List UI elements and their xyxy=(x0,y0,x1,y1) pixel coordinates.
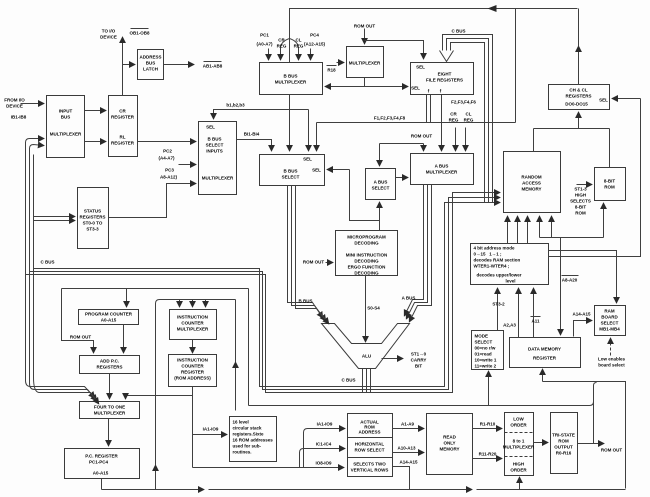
svg-text:11=write 2: 11=write 2 xyxy=(475,364,497,369)
box U3 ADDRESS BUS LATCH xyxy=(138,50,164,80)
svg-text:A BUS: A BUS xyxy=(402,296,416,301)
svg-text:SELECTS: SELECTS xyxy=(570,199,591,204)
svg-text:SEL: SEL xyxy=(411,86,420,91)
svg-text:CL: CL xyxy=(466,112,472,117)
svg-text:REGISTERS: REGISTERS xyxy=(565,94,591,99)
wires into 4bit decoder bottom xyxy=(497,289,499,331)
svg-text:PROGRAM COUNTER: PROGRAM COUNTER xyxy=(85,312,133,317)
svg-text:0→15 1→1 ;: 0→15 1→1 ; xyxy=(474,252,503,257)
svg-text:(A12-A15): (A12-A15) xyxy=(304,42,326,47)
box U5 STATUS REGISTERS xyxy=(78,188,109,249)
svg-text:REGISTERS: REGISTERS xyxy=(96,365,122,370)
wire R18 into multiplexer left xyxy=(337,62,344,64)
svg-text:ORDER: ORDER xyxy=(510,423,527,428)
svg-text:R1-R10: R1-R10 xyxy=(480,422,496,427)
svg-text:A11: A11 xyxy=(531,319,540,324)
svg-text:ST3-3: ST3-3 xyxy=(86,227,99,232)
left bus top arrows into input bus mux xyxy=(26,139,44,143)
svg-text:decodes RAM section: decodes RAM section xyxy=(474,258,521,263)
svg-text:SELECT: SELECT xyxy=(372,186,390,191)
box U18 DATA MEMORY REGISTER xyxy=(510,338,581,368)
svg-text:ROM: ROM xyxy=(575,211,586,216)
C bus horizontal triple left section xyxy=(34,203,500,387)
svg-text:CH & CL: CH & CL xyxy=(569,88,587,93)
svg-text:ROM: ROM xyxy=(558,439,569,444)
svg-text:MEMORY: MEMORY xyxy=(439,447,459,452)
wire input bus mux to CR register xyxy=(85,110,106,112)
box U4 B BUS SELECT INPUTS MULTIPLEXER xyxy=(199,122,237,195)
svg-text:ALU: ALU xyxy=(362,354,371,359)
wires status registers input xyxy=(34,216,75,218)
svg-text:READ: READ xyxy=(443,435,457,440)
svg-text:(A4-A7): (A4-A7) xyxy=(158,156,175,161)
wire BI1-BI4 select inputs to B bus select xyxy=(237,140,272,151)
wire ICR bottom down distribution xyxy=(192,387,194,468)
box U10 A BUS SELECT xyxy=(366,169,396,200)
svg-text:OUTPUT: OUTPUT xyxy=(554,445,573,450)
svg-text:board select: board select xyxy=(598,363,625,368)
svg-text:P.C. REGISTER: P.C. REGISTER xyxy=(85,454,118,459)
svg-text:PC1: PC1 xyxy=(260,33,269,38)
svg-text:C BUS: C BUS xyxy=(40,260,54,265)
svg-text:ROM OUT: ROM OUT xyxy=(303,260,324,265)
svg-text:ERGO FUNCTION: ERGO FUNCTION xyxy=(348,265,386,270)
wire riser x=235 with up arrow xyxy=(235,363,237,411)
arrow on top wire pointing left xyxy=(488,5,497,12)
wire ROM OUT into multiplexer top xyxy=(364,29,366,44)
box U15 8-BIT ROM xyxy=(595,168,626,201)
box U27 READ ONLY MEMORY xyxy=(427,414,473,475)
left C bus triple vertical xyxy=(25,143,27,381)
svg-text:SEL: SEL xyxy=(312,168,321,173)
box U9 B BUS SELECT xyxy=(260,155,325,186)
box U6 B BUS MULTIPLEXER xyxy=(260,63,323,95)
svg-text:PC4: PC4 xyxy=(310,33,319,38)
wire SEL into CH/CL registers right xyxy=(613,98,641,100)
box U17 MODE SELECT xyxy=(472,331,504,370)
box U28 8 to 1 MULTIPLEXER xyxy=(503,413,535,476)
wire curls from riser to CR/CL reg inputs xyxy=(281,39,290,49)
wire link B bus select to A bus select xyxy=(328,169,350,171)
svg-text:R0-R16: R0-R16 xyxy=(556,451,572,456)
svg-text:circular stack: circular stack xyxy=(233,426,263,431)
svg-text:A10-A13: A10-A13 xyxy=(397,446,416,451)
svg-text:IB1-IB8: IB1-IB8 xyxy=(11,115,27,120)
svg-text:IA1-IO9: IA1-IO9 xyxy=(317,422,333,427)
box U14 RANDOM ACCESS MEMORY xyxy=(504,152,561,213)
svg-text:F2,F3,F4,F6: F2,F3,F4,F6 xyxy=(451,100,476,105)
svg-text:(ROM ADDRESS): (ROM ADDRESS) xyxy=(174,376,211,381)
svg-text:B BUS: B BUS xyxy=(283,74,297,79)
box U24 INSTRUCTION COUNTER MULTIPLEXER xyxy=(170,310,217,340)
wire ROM OUT into microprogram decoding xyxy=(326,262,333,264)
wire into stack note box xyxy=(193,434,227,436)
wire ROM OUT y=143 into A bus select and A bus mux xyxy=(380,143,424,145)
svg-text:MODE: MODE xyxy=(475,334,489,339)
svg-text:ADDRESS: ADDRESS xyxy=(358,430,380,435)
box U23 P.C. REGISTER xyxy=(65,449,140,479)
wire 4bit decoder to RAM board select top xyxy=(549,251,617,303)
svg-text:DECODING: DECODING xyxy=(354,259,379,264)
svg-text:ROW SELECT: ROW SELECT xyxy=(355,448,385,453)
svg-text:MULTIPLEXER: MULTIPLEXER xyxy=(50,132,82,137)
box N1 stack note xyxy=(230,417,277,462)
wire long run y=405 xyxy=(249,402,594,406)
svg-text:BUS: BUS xyxy=(146,61,156,66)
svg-text:ADD P.C.: ADD P.C. xyxy=(100,359,119,364)
wire A14-A15 into RAM board select left xyxy=(574,321,592,337)
wires into A bus mux top xyxy=(441,95,443,151)
box U21 ADD P.C. REGISTERS xyxy=(80,356,140,374)
wire ICM to ICR xyxy=(192,340,194,353)
svg-text:MULTIPLEXER: MULTIPLEXER xyxy=(426,170,458,175)
svg-text:ST3-2: ST3-2 xyxy=(492,302,505,307)
wire ICM feed top xyxy=(156,300,236,304)
svg-text:4 bit address mode: 4 bit address mode xyxy=(474,246,516,251)
svg-text:F1,F2,F3,F4,F8: F1,F2,F3,F4,F8 xyxy=(374,116,406,121)
wire A bus select to A bus mux xyxy=(396,177,408,179)
svg-text:HIGH: HIGH xyxy=(575,193,586,198)
svg-text:ROM OUT: ROM OUT xyxy=(354,24,375,29)
wire riser into mode select bottom xyxy=(488,372,490,406)
svg-text:ST1-3: ST1-3 xyxy=(574,187,587,192)
wire F bus y=120 xyxy=(317,122,516,124)
svg-text:INPUTS: INPUTS xyxy=(206,149,223,154)
svg-text:MULTIPLEXER: MULTIPLEXER xyxy=(202,176,234,181)
wire top feedback y=8 from B BUS MUX to CH/CL riser xyxy=(290,9,578,63)
wire up into 8-bit ROM bottom xyxy=(603,204,605,238)
svg-text:PC3: PC3 xyxy=(165,168,174,173)
wire four-to-one mux to P.C. register xyxy=(108,419,110,446)
wire rom out riser x=593 xyxy=(594,383,597,444)
svg-text:ST1→0: ST1→0 xyxy=(411,352,427,357)
svg-text:REG: REG xyxy=(464,118,474,123)
svg-text:ORDER: ORDER xyxy=(510,468,527,473)
svg-text:REGISTER: REGISTER xyxy=(111,115,135,120)
svg-text:b1,b2,b3: b1,b2,b3 xyxy=(226,103,245,108)
svg-text:R11-R20: R11-R20 xyxy=(479,452,497,457)
svg-text:MB1-MB4: MB1-MB4 xyxy=(599,327,620,332)
wire b1,b2,b3 from B bus mux bottom to select inputs mux xyxy=(289,95,291,110)
svg-text:10=write 1: 10=write 1 xyxy=(475,358,497,363)
svg-text:DECODING: DECODING xyxy=(354,241,379,246)
svg-text:(A0-A7): (A0-A7) xyxy=(256,42,273,47)
wire ALU carry out xyxy=(382,358,403,360)
svg-text:00=no r/w: 00=no r/w xyxy=(475,346,496,351)
wire RL register to B bus select inputs xyxy=(138,141,196,143)
svg-text:ACCESS: ACCESS xyxy=(522,181,541,186)
svg-text:TRI-STATE: TRI-STATE xyxy=(552,433,575,438)
svg-text:PC2: PC2 xyxy=(163,149,172,154)
svg-text:IC1-IC4: IC1-IC4 xyxy=(316,442,332,447)
svg-text:B BUS: B BUS xyxy=(207,137,221,142)
svg-text:SEL: SEL xyxy=(206,125,215,130)
svg-text:A1-A9: A1-A9 xyxy=(401,422,415,427)
wire ST1-3 selects 8-bit ROM xyxy=(577,184,592,186)
svg-text:BI1-BI4: BI1-BI4 xyxy=(244,132,260,137)
wire S0-S4 control into ALU xyxy=(365,276,367,342)
wire riser x=519 into 8to1 mux bottom xyxy=(519,478,521,490)
wire from I/O device input xyxy=(21,103,44,105)
wire add pc registers to four-to-one mux xyxy=(109,374,111,399)
svg-text:ROM: ROM xyxy=(604,185,615,190)
wire multiplexer bottom sel to B bus mux and file registers xyxy=(364,78,366,87)
svg-text:HORIZONTAL: HORIZONTAL xyxy=(355,442,384,447)
svg-text:OB1-OB8: OB1-OB8 xyxy=(129,31,150,36)
svg-text:COUNTER: COUNTER xyxy=(181,321,204,326)
svg-text:HIGH: HIGH xyxy=(513,462,524,467)
wire low enables board select into RAM board select xyxy=(610,339,612,356)
svg-text:ADDRESS: ADDRESS xyxy=(139,55,161,60)
svg-text:A14-A15: A14-A15 xyxy=(399,460,418,465)
wire B bus select bottom to ALU left arm (B BUS) xyxy=(288,186,323,318)
svg-text:level: level xyxy=(505,279,515,284)
svg-text:16 level: 16 level xyxy=(233,420,249,425)
wires B bus mux outputs down into B bus select xyxy=(289,110,291,151)
C bus riser up right side to file registers xyxy=(451,43,485,203)
svg-text:A BUS: A BUS xyxy=(435,164,449,169)
left bus bottom curl into four-to-one mux xyxy=(26,381,95,398)
svg-text:CR: CR xyxy=(450,112,457,117)
wire riser x=515 from top line xyxy=(515,9,517,123)
svg-text:MULTIPLEXER: MULTIPLEXER xyxy=(275,80,307,85)
svg-text:8 to 1: 8 to 1 xyxy=(513,439,525,444)
svg-text:FILE REGISTERS: FILE REGISTERS xyxy=(426,78,463,83)
svg-text:B BUS: B BUS xyxy=(298,299,312,304)
svg-text:ROM OUT: ROM OUT xyxy=(70,335,91,340)
svg-text:REGISTER: REGISTER xyxy=(111,141,135,146)
box U20 PROGRAM COUNTER xyxy=(79,310,139,325)
svg-text:IA1-IO9: IA1-IO9 xyxy=(203,427,219,432)
svg-text:ROM OUT: ROM OUT xyxy=(601,448,622,453)
wire rom out feedback top run y=381 xyxy=(543,382,626,489)
wire A bus mux bottom to ALU right arm (A BUS) xyxy=(405,185,424,316)
svg-text:01=read: 01=read xyxy=(475,352,492,357)
wires 4bit decoder top into RAM bottom xyxy=(507,217,509,244)
box U2 CR / RL REGISTER xyxy=(109,96,138,157)
wire rom out loop left section xyxy=(248,289,250,406)
svg-text:FROM I/O: FROM I/O xyxy=(4,98,25,103)
svg-text:C BUS: C BUS xyxy=(341,378,355,383)
box U8 EIGHT FILE REGISTERS xyxy=(411,63,474,95)
svg-text:DATA MEMORY: DATA MEMORY xyxy=(528,347,561,352)
svg-text:A0-A15: A0-A15 xyxy=(101,318,117,323)
svg-text:REGISTER: REGISTER xyxy=(533,356,557,361)
svg-text:INSTRUCTION: INSTRUCTION xyxy=(177,358,208,363)
svg-text:Low enables: Low enables xyxy=(598,357,626,362)
svg-text:SELECT: SELECT xyxy=(475,340,493,345)
wire CR to address bus latch xyxy=(123,64,135,66)
svg-text:SELECT: SELECT xyxy=(282,175,300,180)
big bus arrow into eight file registers top xyxy=(440,51,454,62)
wire branch into program counter top xyxy=(126,289,128,307)
svg-text:C BUS: C BUS xyxy=(451,29,465,34)
svg-text:WTER1-WTER4 ;: WTER1-WTER4 ; xyxy=(474,264,510,269)
svg-text:DECODING: DECODING xyxy=(354,271,379,276)
boxes layer xyxy=(47,47,626,479)
svg-text:MEMORY: MEMORY xyxy=(521,187,541,192)
svg-text:RAM: RAM xyxy=(604,309,614,314)
svg-text:registers.Sixte: registers.Sixte xyxy=(233,432,265,437)
svg-text:MULTIPLEXER: MULTIPLEXER xyxy=(177,327,209,332)
svg-text:16 ROM addresses: 16 ROM addresses xyxy=(233,438,274,443)
svg-text:PC1-PC4: PC1-PC4 xyxy=(89,460,109,465)
svg-text:SEL: SEL xyxy=(599,98,608,103)
svg-text:MULTIPLEXER: MULTIPLEXER xyxy=(349,61,381,66)
wire ROM outputs to 8to1 mux xyxy=(473,428,502,430)
svg-text:REG: REG xyxy=(294,44,304,49)
wire long bottom instruction feed xyxy=(193,467,344,469)
svg-text:routines.: routines. xyxy=(233,450,252,455)
svg-text:DEVICE: DEVICE xyxy=(6,104,23,109)
svg-text:STATUS: STATUS xyxy=(84,209,101,214)
svg-text:CARRY: CARRY xyxy=(411,358,427,363)
svg-text:CL: CL xyxy=(296,38,302,43)
wire stubs into rom address selects xyxy=(304,429,345,468)
box U12 MICROPROGRAM DECODING xyxy=(336,231,398,276)
svg-text:BOARD: BOARD xyxy=(601,315,618,320)
svg-text:MINI INSTRUCTION: MINI INSTRUCTION xyxy=(346,253,388,258)
svg-text:INPUT: INPUT xyxy=(59,109,73,114)
wire rom address selects to ROM xyxy=(393,428,424,430)
svg-text:S0-S4: S0-S4 xyxy=(367,306,380,311)
svg-text:MULTIPLEXER: MULTIPLEXER xyxy=(503,445,535,450)
svg-text:VERTICAL ROWS: VERTICAL ROWS xyxy=(351,468,389,473)
svg-text:A0-A15: A0-A15 xyxy=(93,471,109,476)
box U29 TRI-STATE ROM OUTPUT xyxy=(551,413,578,474)
wire bottom bus y=489 xyxy=(102,489,204,491)
wires into B bus mux top xyxy=(268,49,270,60)
svg-text:REG: REG xyxy=(277,44,287,49)
svg-text:RL: RL xyxy=(120,135,126,140)
box U25 INSTRUCTION COUNTER REGISTER xyxy=(169,355,217,387)
svg-text:ST0-0 TO: ST0-0 TO xyxy=(83,221,103,226)
svg-text:SEL: SEL xyxy=(303,157,312,162)
box U13 CH and CL REGISTERS xyxy=(549,85,610,110)
wire CH/CL bottom bus xyxy=(534,128,610,130)
svg-text:LATCH: LATCH xyxy=(143,67,158,72)
svg-text:FOUR TO ONE: FOUR TO ONE xyxy=(94,405,125,410)
box U7 MULTIPLEXER xyxy=(347,47,384,78)
svg-text:8-BIT: 8-BIT xyxy=(604,179,616,184)
wire input bus mux to RL register xyxy=(85,141,106,143)
svg-text:MULTIPLEXER: MULTIPLEXER xyxy=(94,411,126,416)
svg-text:SELECTS TWO: SELECTS TWO xyxy=(353,462,386,467)
wire CR register to I/O device xyxy=(122,38,124,96)
svg-text:INSTRUCTION: INSTRUCTION xyxy=(177,315,208,320)
wire riser x=578 into CH/CL top xyxy=(578,47,580,85)
svg-text:decodes upper/lower: decodes upper/lower xyxy=(477,273,522,278)
svg-text:DEVICE: DEVICE xyxy=(100,35,117,40)
svg-text:EIGHT: EIGHT xyxy=(438,72,452,77)
svg-text:COUNTER: COUNTER xyxy=(181,364,204,369)
svg-text:R18: R18 xyxy=(327,68,336,73)
svg-text:REG: REG xyxy=(449,118,459,123)
wire A14-A15 output to bottom bus xyxy=(393,467,410,490)
svg-text:A8-A12): A8-A12) xyxy=(160,175,178,180)
wire sel branch to file registers top xyxy=(365,41,424,59)
svg-text:IO8-IO9: IO8-IO9 xyxy=(315,461,332,466)
svg-text:B BUS: B BUS xyxy=(283,169,297,174)
svg-text:SELECT: SELECT xyxy=(601,321,619,326)
svg-text:SEL: SEL xyxy=(416,65,425,70)
svg-text:A2,A3: A2,A3 xyxy=(503,323,516,328)
wire 8to1 mux to tri-state xyxy=(534,442,548,444)
wire address bus latch output xyxy=(164,64,194,66)
box U19 RAM BOARD SELECT xyxy=(595,306,626,336)
svg-text:CR: CR xyxy=(119,109,126,114)
svg-text:SELECT: SELECT xyxy=(206,143,224,148)
box U1 INPUT BUS MULTIPLEXER xyxy=(47,96,85,158)
wire tri-state output ROM OUT xyxy=(578,443,604,445)
svg-text:DO0-DO15: DO0-DO15 xyxy=(565,102,588,107)
box U22 FOUR TO ONE MULTIPLEXER xyxy=(80,402,140,419)
svg-text:LOW: LOW xyxy=(513,417,524,422)
svg-text:BIT: BIT xyxy=(415,364,423,369)
svg-text:A BUS: A BUS xyxy=(374,180,388,185)
box U16 4-bit address mode decoder xyxy=(471,244,549,285)
svg-text:REGISTER: REGISTER xyxy=(181,370,205,375)
wire PC register bottom to riser xyxy=(101,479,103,490)
wire riser x=155 up to ICM feed xyxy=(155,466,157,490)
svg-text:ONLY: ONLY xyxy=(443,441,455,446)
svg-text:TO I/O: TO I/O xyxy=(102,29,116,34)
svg-text:ROM OUT: ROM OUT xyxy=(411,134,432,139)
box U26 ROM address selects (3 sections) xyxy=(348,414,393,477)
svg-text:used for sub-: used for sub- xyxy=(233,444,262,449)
wires data memory bus into RAM bottom xyxy=(539,217,541,238)
wire y=395 feed into four-to-one mux xyxy=(126,396,193,399)
wire riser into data memory register bottom xyxy=(542,370,544,382)
svg-text:AB1-AB8: AB1-AB8 xyxy=(203,64,223,69)
svg-text:MICROPROGRAM: MICROPROGRAM xyxy=(347,235,386,240)
box U11 A BUS MULTIPLEXER xyxy=(411,154,474,185)
svg-text:CR: CR xyxy=(278,38,285,43)
svg-text:REGISTERS: REGISTERS xyxy=(79,215,105,220)
svg-text:A14-A15: A14-A15 xyxy=(572,312,591,317)
svg-text:RANDOM: RANDOM xyxy=(521,175,541,180)
ALU funnel U30 xyxy=(322,324,410,393)
svg-text:BUS: BUS xyxy=(61,115,71,120)
wire program counter to add pc registers xyxy=(123,325,125,353)
wire status registers output to select inputs xyxy=(109,184,196,218)
wire PC2/PC3 into select inputs xyxy=(179,164,196,166)
svg-text:8-BIT: 8-BIT xyxy=(575,205,587,210)
svg-text:A8-A20: A8-A20 xyxy=(562,278,578,283)
